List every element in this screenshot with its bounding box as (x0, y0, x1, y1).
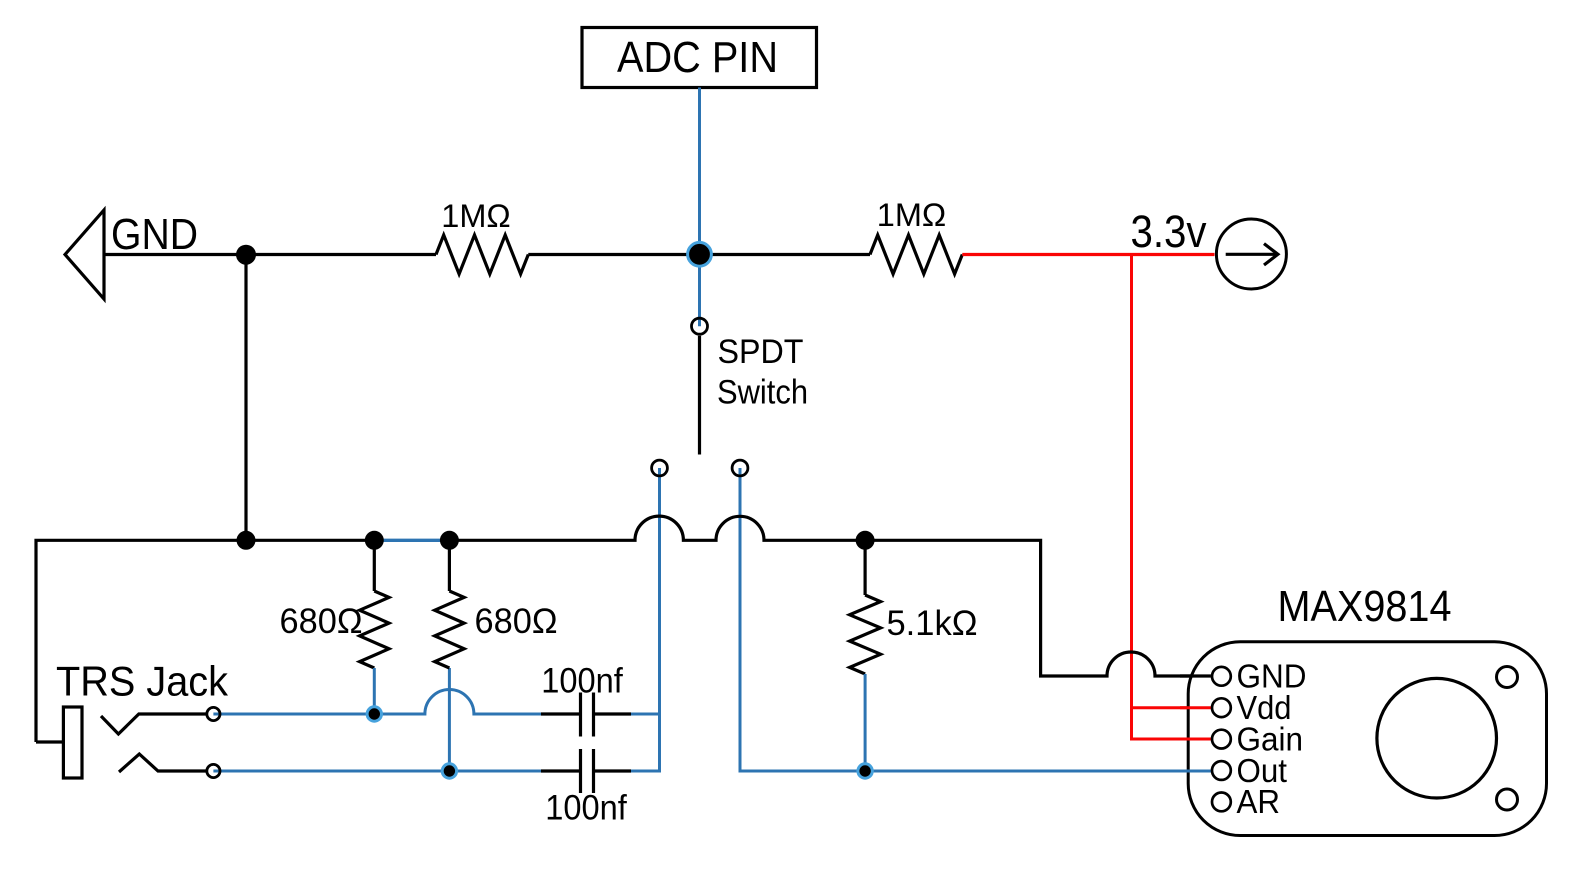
wire Gain pin entry (red) (1180, 738, 1211, 741)
junction dot bus/GND drop (237, 531, 256, 550)
SPDT throw terminal B circle (732, 460, 748, 476)
node ring/R4 junction (black dot, blue ring) (442, 764, 456, 778)
resistor R1 1M ohm (436, 198, 528, 274)
svg-text:1MΩ: 1MΩ (441, 198, 511, 234)
pin Out circle (1212, 761, 1231, 780)
wire 680R-2 lower lead (blue) (448, 668, 451, 771)
resistor 680 ohm R4 (435, 540, 558, 668)
wire tip net to C1, hop over R4 lead (blue) (213, 690, 541, 715)
wire main bus right with hops over blue wires, to GND pin (449, 516, 1211, 676)
TRS jack body (63, 707, 82, 778)
wire node to SPDT common (blue) (698, 255, 701, 327)
junction dot node GND/bus (236, 245, 256, 265)
wire R3 lower lead (blue) (373, 668, 376, 714)
pin Vdd circle (1212, 698, 1231, 717)
TRS ring terminal circle (207, 764, 220, 777)
voltage source symbol 3.3v (1216, 219, 1286, 289)
microphone circle on MAX9814 (1377, 678, 1497, 798)
TRS ring contact (119, 754, 206, 772)
wire throw A down to capacitor net (blue) (631, 468, 660, 771)
wire C1 right lead to throw A net (blue) (631, 713, 660, 716)
wire GND pin entry (1180, 674, 1211, 677)
junction dot bus/5.1k (856, 531, 875, 550)
wire R1 to ADC node (528, 253, 870, 256)
wire ring net to C2 (blue) (213, 770, 541, 773)
SPDT common terminal circle (692, 318, 708, 334)
node ADC junction (black dot, blue ring) (688, 242, 712, 266)
SPDT Switch label (717, 333, 808, 412)
svg-text:100nf: 100nf (541, 662, 623, 701)
svg-text:5.1kΩ: 5.1kΩ (887, 603, 978, 643)
svg-text:ADC PIN: ADC PIN (617, 34, 778, 82)
pin Gain circle (1212, 730, 1231, 749)
wire 3.3v rail down to MAX9814 (red) (1132, 255, 1211, 740)
svg-text:GND: GND (111, 211, 198, 259)
wire ground to resistor R1 (104, 253, 436, 256)
wire jack sleeve feed (36, 740, 62, 743)
pin AR circle (1212, 793, 1231, 812)
wire Out pin entry (blue) (1180, 770, 1211, 773)
node tip/R3 junction (black dot, blue ring) (367, 707, 381, 721)
svg-text:MAX9814: MAX9814 (1278, 582, 1452, 631)
TRS tip terminal circle (207, 707, 220, 720)
ground symbol (65, 210, 104, 299)
resistor 680 ohm R3 (280, 540, 390, 668)
SPDT throw terminal A circle (652, 460, 668, 476)
wire R5 lower lead (blue) (864, 674, 867, 771)
pin GND circle (1212, 667, 1231, 686)
wire GND junction down to bus (244, 255, 247, 541)
wire bus blue segment between 680R junctions (374, 539, 449, 542)
junction dot bus/680R-2 (440, 531, 459, 550)
wire R2 to 3.3v source (red) (962, 253, 1214, 256)
svg-text:TRS Jack: TRS Jack (56, 658, 229, 705)
SPDT switch lever (698, 336, 701, 455)
resistor R2 1M ohm (870, 197, 962, 274)
node Out/R5 junction (black dot, blue ring) (858, 764, 872, 778)
wire Vdd pin entry (red) (1180, 706, 1211, 709)
svg-text:1MΩ: 1MΩ (877, 197, 947, 233)
mounting hole bottom right (1497, 789, 1518, 810)
svg-text:100nf: 100nf (545, 789, 627, 828)
capacitor C1 100nf (541, 662, 631, 737)
junction dot bus/680R-1 (365, 531, 384, 550)
MAX9814 module U1 (1188, 642, 1546, 836)
svg-text:Switch: Switch (717, 374, 808, 412)
svg-text:AR: AR (1237, 784, 1281, 821)
ADC PIN box (582, 28, 817, 88)
wire main bus left segment (36, 540, 374, 742)
svg-text:680Ω: 680Ω (280, 602, 363, 641)
svg-text:3.3v: 3.3v (1131, 206, 1207, 257)
wire throw B down and to Out pin (blue) (740, 468, 1211, 771)
mounting hole top right (1497, 667, 1518, 688)
svg-text:SPDT: SPDT (718, 333, 804, 371)
wire red branch to Vdd pin (1132, 706, 1211, 709)
resistor 5.1k ohm R5 (850, 540, 978, 674)
wire ADC PIN to node (blue) (698, 88, 701, 255)
svg-text:680Ω: 680Ω (475, 602, 558, 641)
capacitor C2 100nf (541, 749, 631, 828)
TRS tip contact (101, 714, 206, 734)
